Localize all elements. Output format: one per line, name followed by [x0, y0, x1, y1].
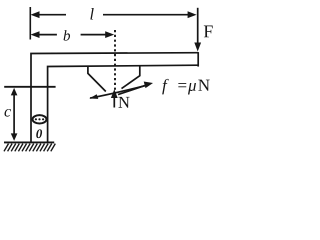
wall ledge line	[4, 86, 55, 88]
dimension c bottom arrowhead	[11, 133, 18, 141]
label f = uN	[162, 79, 168, 95]
label 0	[36, 129, 42, 138]
label F	[204, 26, 213, 38]
dimension l extension tick (left)	[29, 7, 31, 40]
dimension b left arrowhead	[31, 31, 40, 38]
dimension b right arrowhead	[105, 31, 114, 38]
dimension l line	[33, 14, 66, 16]
force F arrowhead	[194, 43, 201, 52]
lever outer outline (beam top + left post edge)	[31, 53, 198, 143]
beam right end cap	[197, 52, 199, 67]
dotted centre line	[114, 30, 116, 95]
label c	[4, 109, 10, 117]
brake shoe left edge	[88, 66, 106, 92]
pivot pin ellipse O	[33, 115, 47, 123]
friction force arrow f	[118, 85, 146, 94]
label b	[64, 30, 70, 41]
label N	[118, 97, 129, 108]
drum arc left arrowhead	[89, 94, 98, 99]
dimension b line	[33, 34, 57, 36]
brake shoe right edge	[122, 66, 140, 89]
ground hatching	[4, 144, 55, 152]
force F line	[197, 8, 199, 44]
normal force arrow N	[113, 96, 115, 108]
dimension c line	[13, 92, 15, 136]
pivot pin dots	[35, 118, 44, 120]
label l	[90, 8, 93, 19]
lever inner outline (beam bottom + inner post edge)	[48, 65, 199, 142]
drum arc	[90, 85, 146, 98]
ground line	[4, 141, 54, 143]
dimension l left arrowhead	[31, 11, 40, 18]
dimension c top arrowhead	[11, 88, 18, 96]
dimension l right arrowhead	[188, 11, 197, 18]
